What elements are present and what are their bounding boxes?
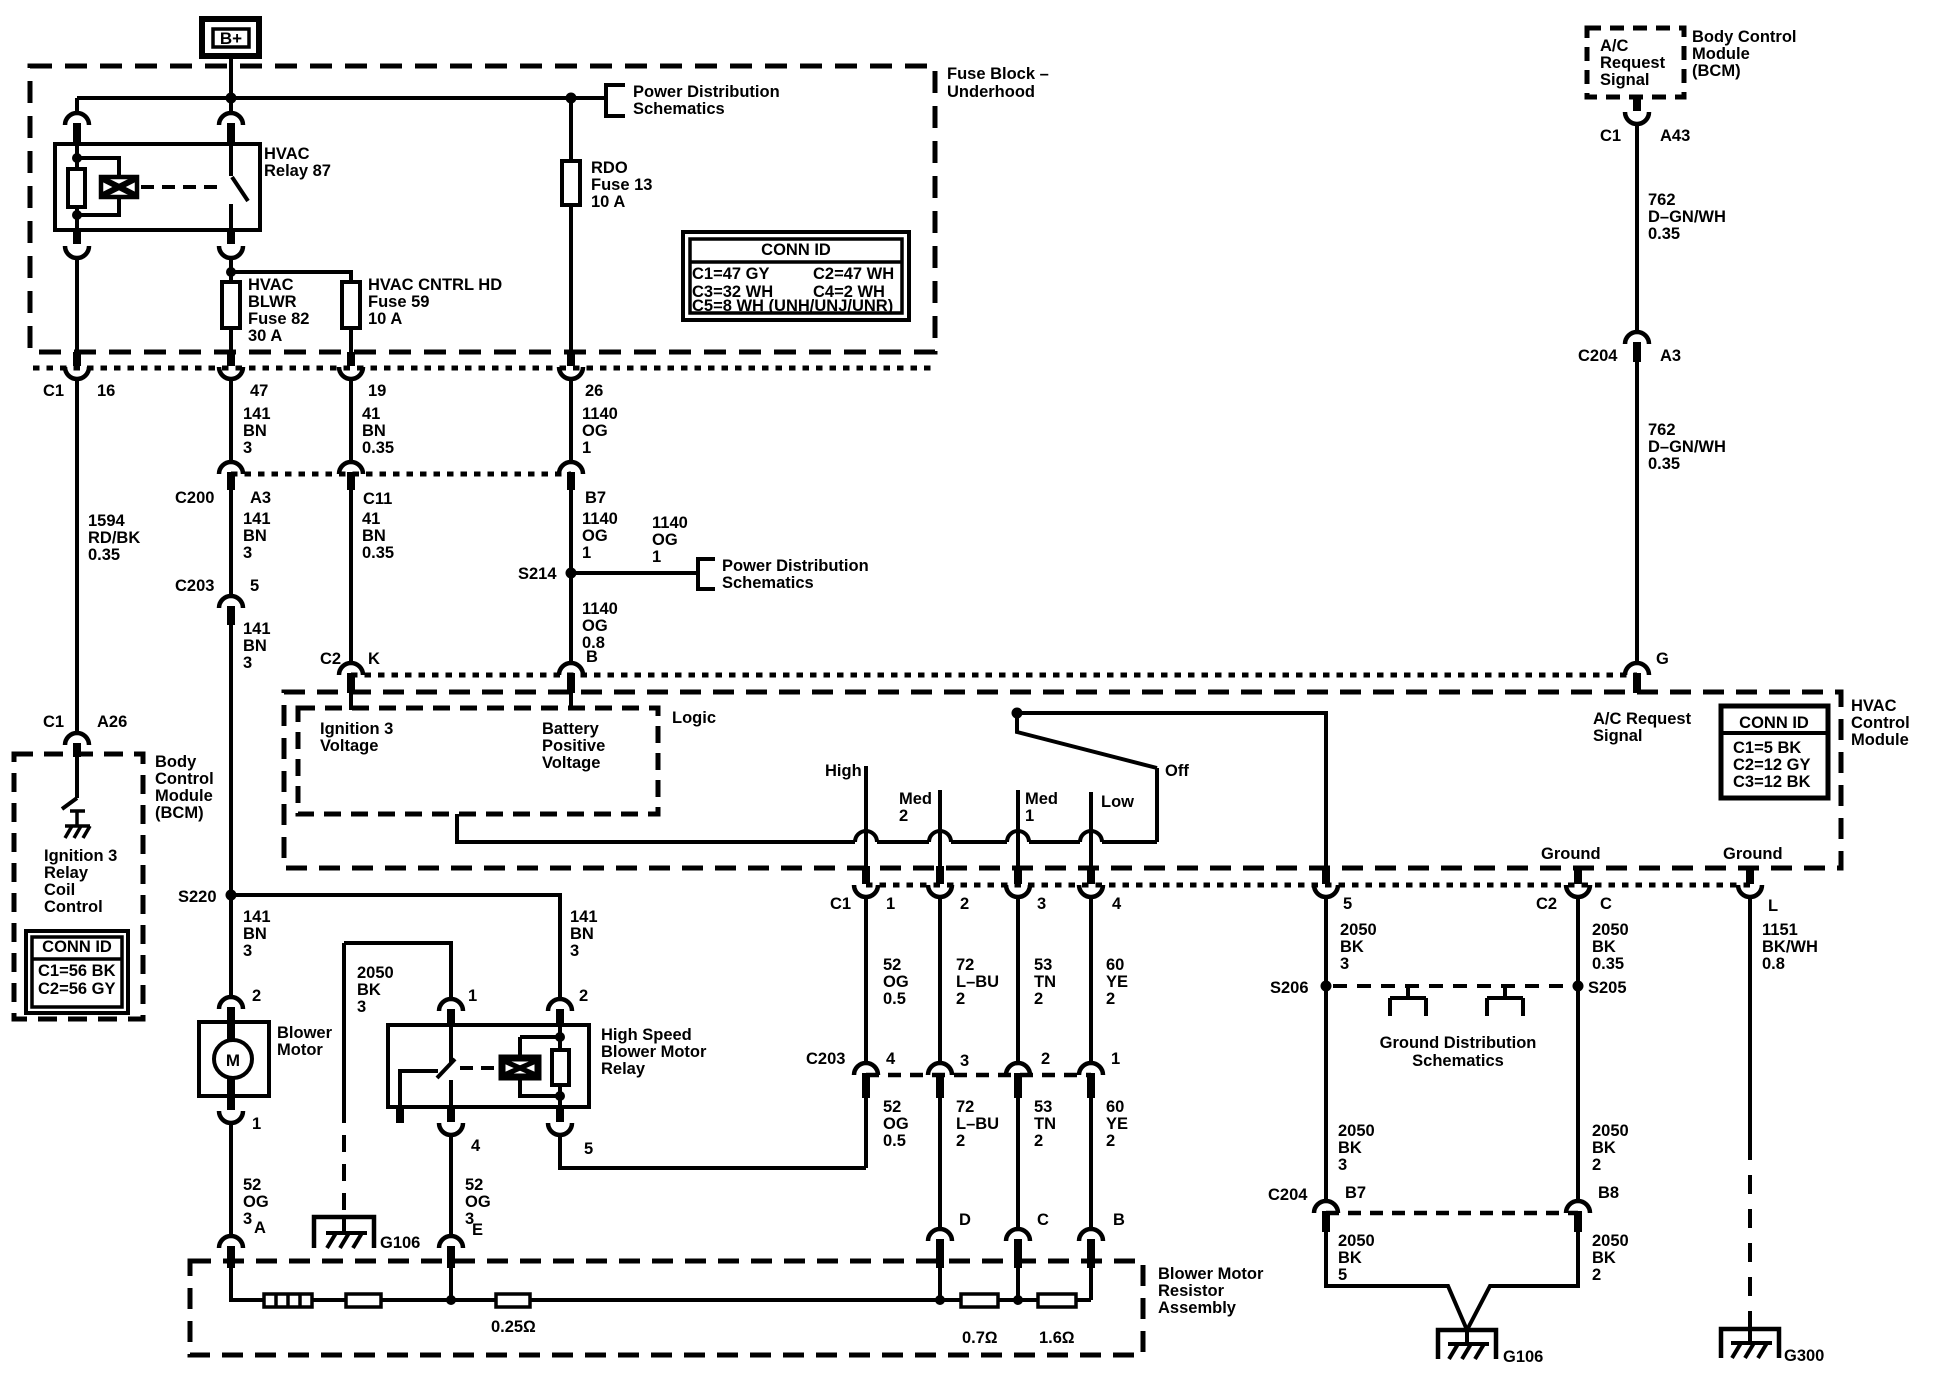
relay switch fixed contact [229,144,233,176]
svg-text:1: 1 [1025,807,1034,825]
wire 1140 OG segment 2 [569,490,573,573]
svg-text:0.35: 0.35 [362,439,394,457]
junction coil bottom [72,210,82,220]
connector row C200 dotted line [231,472,571,477]
wire 141 BN segment 2 [229,490,233,596]
svg-text:C2=47 WH: C2=47 WH [813,265,894,283]
connector row C1 dotted line [33,366,933,371]
wire 1151 BK/WH [1748,897,1752,1141]
svg-text:D–GN/WH: D–GN/WH [1648,438,1726,456]
label 53 TN 2 [1034,956,1056,1008]
svg-text:C203: C203 [806,1050,845,1068]
connector HVAC module pin B [559,663,583,675]
svg-text:S220: S220 [178,888,217,906]
svg-text:BN: BN [570,925,594,943]
svg-text:BK: BK [1592,1249,1616,1267]
svg-text:Blower Motor: Blower Motor [1158,1265,1264,1283]
svg-text:A43: A43 [1660,127,1690,145]
svg-text:3: 3 [1338,1156,1347,1174]
svg-text:BN: BN [243,637,267,655]
High contact wire [864,766,868,866]
svg-text:A26: A26 [97,713,127,731]
wire B+ feed down [229,57,233,113]
svg-text:S206: S206 [1270,979,1309,997]
svg-text:Ground: Ground [1541,845,1601,863]
svg-text:High Speed: High Speed [601,1026,692,1044]
svg-text:A3: A3 [1660,347,1681,365]
dashed actuation link [141,185,225,189]
svg-text:52: 52 [243,1176,261,1194]
svg-text:BN: BN [362,527,386,545]
wire 72 L-BU upper [938,897,942,1063]
svg-text:C1: C1 [43,713,64,731]
ground G300 [1721,1327,1779,1358]
label 41 BN 0.35 [362,405,394,457]
splice S214 [566,568,577,579]
wire 53 TN upper [1016,897,1020,1063]
svg-text:Request: Request [1600,54,1666,72]
svg-text:C1=5 BK: C1=5 BK [1733,739,1801,757]
label Ground Distribution Schematics [1380,1034,1537,1070]
svg-text:BN: BN [243,527,267,545]
splice S206 [1321,981,1332,992]
wire fuse 82 down [229,328,233,352]
svg-text:A/C Request: A/C Request [1593,710,1692,728]
svg-text:1: 1 [582,439,591,457]
svg-text:Blower Motor: Blower Motor [601,1043,707,1061]
labels C203 [175,577,259,595]
label 1140 OG 0.8 [582,600,618,652]
svg-text:RDO: RDO [591,159,628,177]
svg-text:47: 47 [250,382,268,400]
wire switch common to pin 5 [1017,713,1326,866]
svg-text:YE: YE [1106,1115,1128,1133]
svg-text:1140: 1140 [582,510,618,528]
svg-text:26: 26 [585,382,603,400]
labels C204 row [1268,1184,1619,1204]
label 2050 BK 5 [1338,1232,1375,1284]
wire 2050 BK 0.35 [1576,897,1580,1201]
connector C1 pin 47 [219,367,243,379]
svg-text:5: 5 [1338,1266,1347,1284]
svg-text:A: A [254,1219,266,1237]
fuse F13 RDO [562,161,580,205]
connector terminal below relay coil [73,230,81,244]
svg-text:Body Control: Body Control [1692,28,1797,46]
svg-text:53: 53 [1034,956,1052,974]
wire 53 TN lower [1016,1098,1020,1229]
junction pin C [1013,1295,1023,1305]
svg-text:E: E [472,1221,483,1239]
connector C1 pin 1 [854,885,878,897]
svg-text:CONN ID: CONN ID [42,938,112,956]
wire 141 BN segment 3 [229,625,233,997]
connector C1 pin 4 [1079,885,1103,897]
svg-text:Schematics: Schematics [1412,1052,1504,1070]
svg-text:C1: C1 [1600,127,1621,145]
svg-text:G106: G106 [380,1234,420,1252]
CONN ID table fuse block [683,232,909,320]
label Fuse Block Underhood [947,65,1049,101]
label 2050 BK 3 [1340,921,1377,973]
svg-text:HVAC: HVAC [248,276,294,294]
svg-text:Ignition 3: Ignition 3 [44,847,117,865]
svg-text:0.5: 0.5 [883,990,906,1008]
svg-text:K: K [368,650,380,668]
blower motor M1 [199,1022,269,1096]
wire 52 OG 3 blower to resistor [229,1123,233,1236]
svg-text:2050: 2050 [1338,1122,1375,1140]
BCM internal switch feed [75,757,79,798]
svg-text:Ground Distribution: Ground Distribution [1380,1034,1537,1052]
wire RDO fuse feed [569,98,573,161]
labels C2 K [320,650,380,668]
svg-text:Positive: Positive [542,737,605,755]
label 72 L-BU 2 [956,1098,999,1150]
wire 1140 OG 0.8 [569,573,573,663]
labels module pin row [830,895,1778,915]
wire S220 to relay pin 2 [231,895,560,999]
module pin row stubs [862,866,870,884]
svg-text:52: 52 [465,1176,483,1194]
svg-text:D: D [959,1211,971,1229]
svg-text:Ignition 3: Ignition 3 [320,720,393,738]
svg-text:10 A: 10 A [591,193,625,211]
svg-text:C11: C11 [363,490,392,508]
relay switch blade [232,177,248,201]
label A/C Request Signal [1600,37,1666,89]
svg-text:OG: OG [582,527,608,545]
label 2050 BK 2 right [1592,1232,1629,1284]
svg-text:1140: 1140 [582,600,618,618]
wire segment [877,840,929,844]
wire B into logic [569,693,573,710]
connector relay pin 5 [556,1107,564,1122]
svg-text:3: 3 [570,942,579,960]
svg-text:2: 2 [252,987,261,1005]
svg-text:CONN ID: CONN ID [1739,714,1809,732]
wire 141 BN segment [229,379,233,462]
svg-text:5: 5 [250,577,259,595]
svg-text:Power Distribution: Power Distribution [633,83,780,101]
wire 41 BN segment 2 [349,490,353,663]
svg-text:52: 52 [883,956,901,974]
connector C203 pin 4 [854,1063,878,1075]
svg-text:4: 4 [1112,895,1122,913]
junction at B+ drop [226,93,237,104]
thermal limiter element [264,1294,312,1307]
wire 1140 OG segment [569,379,573,462]
Blower Motor Resistor Assembly dashed box [190,1261,1143,1355]
svg-text:C1=47 GY: C1=47 GY [692,265,770,283]
svg-text:0.7Ω: 0.7Ω [962,1329,998,1347]
off-page bracket Power Distribution [606,85,625,116]
wire 72 L-BU lower [938,1098,942,1229]
svg-text:3: 3 [243,439,252,457]
label High Speed Blower Motor Relay [601,1026,707,1078]
svg-text:Module: Module [1692,45,1750,63]
svg-text:1151: 1151 [1762,921,1798,939]
wire 41 BN segment [349,379,353,462]
label Blower Motor [277,1024,333,1059]
svg-text:C: C [1600,895,1612,913]
svg-text:2: 2 [899,807,908,825]
svg-text:C200: C200 [175,489,214,507]
svg-text:72: 72 [956,1098,974,1116]
label 52 OG 3 E [465,1176,491,1239]
svg-text:2: 2 [579,987,588,1005]
wire relay output to fuses [229,258,233,282]
svg-text:Assembly: Assembly [1158,1299,1237,1317]
label Ignition 3 Relay Coil Control [44,847,117,916]
svg-text:Voltage: Voltage [320,737,378,755]
svg-text:Signal: Signal [1600,71,1650,89]
connector row C204 dashed line [1326,1211,1578,1216]
label HVAC CNTRL HD Fuse 59 10 A [368,276,502,328]
svg-text:BLWR: BLWR [248,293,297,311]
wire coil output to C1-16 [75,258,79,352]
svg-text:1: 1 [1111,1050,1120,1068]
svg-text:4: 4 [886,1050,896,1068]
svg-text:BK/WH: BK/WH [1762,938,1818,956]
label HVAC Control Module [1851,697,1910,749]
junction fuse branch [226,267,236,277]
svg-text:Battery: Battery [542,720,600,738]
connector row dotted line module top [351,673,1637,678]
Body Control Module dashed box left [14,754,143,1019]
wire B8 to G106 [1467,1232,1578,1330]
wire segment [998,1298,1038,1302]
svg-text:C2: C2 [1536,895,1557,913]
svg-text:BK: BK [1592,1139,1616,1157]
label 141 BN 3 [243,510,271,562]
connector blower motor pin 1 [227,1096,235,1110]
wire segment [381,1298,496,1302]
label Ignition 3 Voltage [320,720,393,755]
svg-text:C2=56 GY: C2=56 GY [38,980,116,998]
svg-text:0.35: 0.35 [362,544,394,562]
svg-text:2: 2 [956,1132,965,1150]
svg-text:1: 1 [582,544,591,562]
connector relay pin 1 [439,999,463,1011]
switch wiper blade [1017,713,1157,768]
Logic dashed box [298,708,658,814]
label 141 BN 3 right branch [570,908,598,960]
svg-text:2: 2 [1592,1266,1601,1284]
label HVAC BLWR Fuse 82 30 A [248,276,309,345]
wire 52 OG 0.5 upper [864,897,868,1063]
connector blower motor pin 2 [219,997,243,1009]
svg-text:0.35: 0.35 [1648,225,1680,243]
connector terminal above relay coil [65,113,89,125]
svg-text:A/C: A/C [1600,37,1629,55]
svg-text:3: 3 [243,544,252,562]
svg-text:L–BU: L–BU [956,1115,999,1133]
splice S205 [1573,981,1584,992]
resistor element [346,1294,381,1307]
svg-text:Relay 87: Relay 87 [264,162,331,180]
svg-text:BN: BN [362,422,386,440]
resistor chain wire A side [231,1268,264,1300]
B+ battery feed terminal [202,19,259,56]
svg-text:Med: Med [1025,790,1058,808]
wire pin D down [938,1268,942,1300]
Med 2 contact wire [938,790,942,866]
svg-text:141: 141 [570,908,598,926]
CONN ID table HVAC module [1721,706,1828,798]
connector blower resistor pin C [1006,1229,1030,1241]
svg-text:1: 1 [252,1115,261,1133]
relay switch blade [437,1059,455,1078]
svg-text:Relay: Relay [601,1060,646,1078]
relay switch lower terminal [449,1080,453,1107]
svg-text:Control: Control [44,898,103,916]
label 762 D-GN/WH 0.35 lower [1648,421,1726,473]
connector C1 pin A43 [1633,97,1641,111]
junction switch common [1012,708,1023,719]
wire 2050 BK 3 relay pin1 to ground [344,943,451,999]
svg-text:Signal: Signal [1593,727,1643,745]
label 41 BN 0.35 [362,510,394,562]
label 141 BN 3 at S220 [243,908,271,960]
label 1151 BK/WH 0.8 [1762,921,1818,973]
svg-text:Relay: Relay [44,864,89,882]
resistor 0.25 ohm [496,1294,530,1307]
wire 52 OG 3 relay pin 4 to E [449,1135,453,1236]
svg-text:Resistor: Resistor [1158,1282,1225,1300]
svg-text:53: 53 [1034,1098,1052,1116]
connector relay pin 4 [447,1107,455,1122]
connector C203 pin 5 [219,596,243,608]
svg-text:2: 2 [956,990,965,1008]
svg-text:G106: G106 [1503,1348,1543,1366]
label 141 BN 3 [243,405,271,457]
svg-text:(BCM): (BCM) [155,804,204,822]
connector row C1 fuse block stubs [73,352,81,366]
svg-text:3: 3 [960,1052,969,1070]
svg-text:2: 2 [1592,1156,1601,1174]
svg-text:Coil: Coil [44,881,75,899]
label 2050 BK 2 [1592,1122,1629,1174]
relay coil bypass loop [77,158,119,215]
svg-text:CONN ID: CONN ID [761,241,831,259]
svg-text:C204: C204 [1578,347,1618,365]
wire 1594 RD/BK to BCM [75,379,79,733]
connector C200 pin A3 [219,462,243,474]
svg-text:52: 52 [883,1098,901,1116]
wire segment [312,1298,346,1302]
svg-text:L: L [1768,897,1778,915]
label 2050 BK 0.35 [1592,921,1629,973]
label 52 OG 0.5 [883,1098,909,1150]
svg-text:C2: C2 [320,650,341,668]
svg-text:TN: TN [1034,973,1056,991]
relay switch pivot wire [400,1071,438,1107]
connector terminal below relay switch [227,230,235,244]
svg-text:B: B [1113,1211,1125,1229]
connector C1 pin 19 [339,367,363,379]
wire 52 OG 0.5 lower [864,1098,868,1168]
hop over Med 2 [929,831,951,842]
label Body Control Module BCM left [155,753,214,822]
label 2050 BK 3 [357,964,394,1016]
svg-text:TN: TN [1034,1115,1056,1133]
svg-text:2050: 2050 [1592,1232,1629,1250]
label HVAC Relay 87 [264,145,331,180]
dashed wire to G300 [1748,1141,1752,1327]
wire S214 to bracket [571,571,698,575]
label A/C Request Signal inside module [1593,710,1692,745]
svg-text:C1: C1 [43,382,64,400]
connector C1 pin 3 [1006,885,1030,897]
label 52 OG 0.5 [883,956,909,1008]
A/C Request Signal dashed box [1587,28,1684,97]
svg-text:OG: OG [883,1115,909,1133]
connector resistor pin E [439,1236,463,1248]
svg-text:141: 141 [243,405,271,423]
wire pin C down [1016,1268,1020,1300]
svg-text:Med: Med [899,790,932,808]
wire fuse 59 down [349,328,353,352]
svg-text:Off: Off [1165,762,1189,780]
svg-text:3: 3 [243,942,252,960]
off-page bracket ground distribution 1 [1390,988,1426,1016]
wire B7 to G106 [1326,1232,1467,1330]
junction pin D [935,1295,945,1305]
connector HVAC module pin G [1625,663,1649,675]
ground G106 [1438,1328,1496,1359]
svg-text:2050: 2050 [1340,921,1377,939]
svg-text:3: 3 [1037,895,1046,913]
wire relay pin 5 to C203-4 [560,1135,866,1168]
svg-text:HVAC: HVAC [264,145,310,163]
svg-text:60: 60 [1106,1098,1124,1116]
svg-text:RD/BK: RD/BK [88,529,140,547]
svg-text:2050: 2050 [357,964,394,982]
wire 2050 BK 3 pin5 down [1324,897,1328,1201]
svg-text:BK: BK [1592,938,1616,956]
svg-text:2: 2 [1041,1050,1050,1068]
ground G106 left [314,1215,374,1248]
wire drop to relay coil [75,98,79,113]
relay K2 High Speed Blower Motor Relay box [388,1025,589,1107]
svg-text:141: 141 [243,908,271,926]
svg-text:41: 41 [362,510,380,528]
wire 2050 BK solid segment [342,943,346,1106]
junction at RDO fuse drop [566,93,577,104]
connector row dotted line below module [866,883,1750,888]
svg-text:5: 5 [1343,895,1352,913]
BCM internal contact and ground [65,811,90,838]
label 1140 OG 1 [652,514,688,566]
wire segment to B [1076,1298,1091,1302]
svg-text:0.25Ω: 0.25Ω [491,1318,536,1336]
svg-text:Underhood: Underhood [947,83,1035,101]
wire 762 upper [1635,124,1639,332]
svg-text:Ground: Ground [1723,845,1783,863]
blower switch logic output wire [457,814,855,842]
svg-text:Schematics: Schematics [633,100,725,118]
svg-text:C204: C204 [1268,1186,1308,1204]
svg-text:0.8: 0.8 [1762,955,1785,973]
svg-text:2050: 2050 [1592,921,1629,939]
svg-text:2: 2 [1034,1132,1043,1150]
svg-text:Body: Body [155,753,197,771]
svg-text:Fuse 82: Fuse 82 [248,310,309,328]
dashed actuation link [460,1066,500,1070]
svg-text:41: 41 [362,405,380,423]
svg-text:C1: C1 [830,895,851,913]
